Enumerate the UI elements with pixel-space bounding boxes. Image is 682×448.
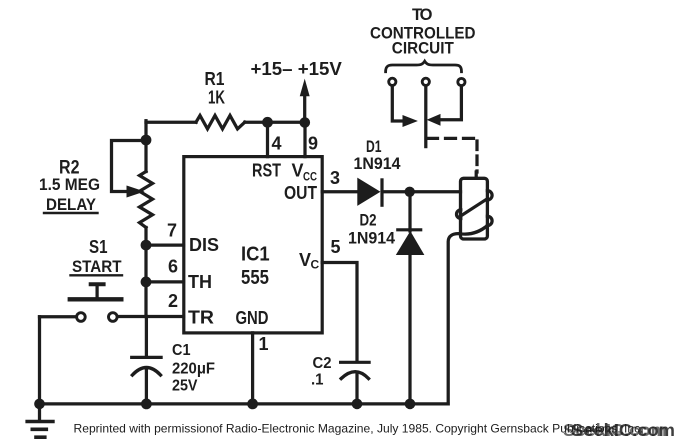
capacitor C2 curved plate xyxy=(341,372,368,379)
wire D1 to relay xyxy=(384,190,461,193)
wire pin 9 Vcc vertical xyxy=(303,123,306,157)
svg-text:TR: TR xyxy=(188,308,214,328)
svg-text:4: 4 xyxy=(272,134,282,154)
node pin9 junction xyxy=(300,117,311,128)
node D2 bottom xyxy=(405,399,416,410)
svg-text:25V: 25V xyxy=(172,378,198,395)
R2 wiper arrowhead xyxy=(127,186,143,197)
capacitor C1 bottom lead xyxy=(145,369,148,404)
diode D1 xyxy=(358,179,380,206)
relay winding right bump lower xyxy=(487,216,492,225)
wire left rail vertical xyxy=(38,317,41,404)
relay contact left wire with arrow xyxy=(392,86,403,121)
wire pin 1 GND vertical xyxy=(251,333,254,404)
pushbutton S1 cap xyxy=(91,282,104,286)
svg-text:CC: CC xyxy=(303,170,317,184)
node DIS junction xyxy=(141,240,152,251)
svg-text:SeekIC.com: SeekIC.com xyxy=(563,420,667,440)
wire D2 bottom lead xyxy=(408,254,411,404)
svg-text:START: START xyxy=(72,258,122,276)
relay winding diagonal xyxy=(460,199,488,217)
wire left to S1 xyxy=(40,315,77,318)
capacitor C1 curved plate xyxy=(132,368,160,376)
svg-text:IC1: IC1 xyxy=(241,244,270,266)
svg-text:S1: S1 xyxy=(89,237,108,257)
svg-text:2: 2 xyxy=(168,291,178,311)
svg-text:D1: D1 xyxy=(366,138,382,156)
node C2 bottom xyxy=(352,399,363,410)
node bottom left xyxy=(34,399,45,410)
dashed mechanical link vertical xyxy=(475,141,478,172)
wire TR from S1 to pin 2 xyxy=(118,315,184,318)
node pin4 junction xyxy=(262,117,273,128)
svg-text:DIS: DIS xyxy=(189,235,219,255)
svg-text:OUT: OUT xyxy=(284,183,317,203)
power supply arrow +15V xyxy=(303,96,306,122)
wire R1 to Vcc node xyxy=(245,121,306,124)
capacitor C1 top lead xyxy=(145,317,148,357)
relay contact right wire with arrow xyxy=(439,87,461,120)
node C1 bottom xyxy=(141,399,152,410)
svg-text:GND: GND xyxy=(236,308,269,328)
svg-text:1N914: 1N914 xyxy=(354,155,402,173)
wire TH stub pin 6 xyxy=(146,280,184,283)
relay contact terminal circles xyxy=(389,78,396,85)
svg-text:DELAY: DELAY xyxy=(46,196,96,214)
svg-text:1N914: 1N914 xyxy=(348,230,396,248)
switch S1 right contact circle xyxy=(109,313,118,322)
diode D2 xyxy=(408,192,411,231)
wire pin 3 OUT to D1 xyxy=(322,190,358,193)
relay contact middle armature wire xyxy=(424,86,427,146)
wire top horizontal from R2 top corner to R1 xyxy=(146,121,196,124)
R2 wiper arm wire xyxy=(112,141,147,192)
svg-text:C2: C2 xyxy=(313,355,332,372)
capacitor C1 top plate xyxy=(132,356,161,359)
dashed mechanical link horizontal xyxy=(428,137,478,140)
svg-text:TH: TH xyxy=(188,272,212,292)
svg-text:7: 7 xyxy=(167,221,177,241)
capacitor C2 bottom lead xyxy=(355,373,358,404)
svg-text:9: 9 xyxy=(308,134,318,154)
svg-text:1K: 1K xyxy=(208,87,225,107)
svg-text:.1: .1 xyxy=(311,372,324,389)
svg-text:TO: TO xyxy=(412,6,433,24)
switch S1 left contact circle xyxy=(77,313,86,322)
potentiometer R2 body xyxy=(140,172,153,228)
IC U1 555 box xyxy=(184,157,322,333)
wire pin 5 Vc to C2 xyxy=(322,263,357,361)
ground symbol xyxy=(38,404,41,421)
svg-text:3: 3 xyxy=(330,168,340,188)
pushbutton S1 stem xyxy=(95,285,98,298)
brace over contacts xyxy=(386,61,462,71)
svg-text:C1: C1 xyxy=(172,342,191,359)
svg-text:CIRCUIT: CIRCUIT xyxy=(392,40,454,58)
node pin1 bottom xyxy=(247,399,258,410)
wire R2 bottom to TR row xyxy=(144,228,147,317)
node R2 wiper junction xyxy=(141,135,152,146)
svg-text:5: 5 xyxy=(331,237,341,257)
svg-text:V: V xyxy=(299,250,311,270)
svg-text:C: C xyxy=(311,258,320,272)
svg-text:R1: R1 xyxy=(205,69,225,89)
relay winding right bump upper xyxy=(487,191,492,200)
svg-text:RST: RST xyxy=(252,161,281,181)
svg-text:Reprinted with permissionof Ra: Reprinted with permissionof Radio-Electr… xyxy=(74,422,644,436)
relay top stub xyxy=(475,172,478,178)
svg-text:555: 555 xyxy=(241,267,269,289)
node D1 D2 junction xyxy=(405,187,415,197)
svg-text:1: 1 xyxy=(259,334,269,354)
resistor R1 xyxy=(196,115,245,128)
relay coil K1 body xyxy=(461,178,488,239)
svg-text:V: V xyxy=(292,161,304,181)
node TH junction xyxy=(141,277,152,288)
svg-text:D2: D2 xyxy=(360,211,377,229)
svg-text:1.5 MEG: 1.5 MEG xyxy=(39,176,100,194)
capacitor C2 top plate xyxy=(341,361,370,364)
svg-text:220μF: 220μF xyxy=(172,360,215,377)
relay winding bottom exit xyxy=(448,226,487,404)
wire bottom ground rail xyxy=(40,402,449,405)
wire R2 top vertical xyxy=(144,121,147,172)
svg-text:+15– +15V: +15– +15V xyxy=(251,59,342,79)
wire DIS stub pin 7 xyxy=(146,243,184,246)
svg-text:6: 6 xyxy=(168,257,178,277)
relay winding left bulge xyxy=(456,210,460,219)
wire pin 4 RST vertical xyxy=(266,122,269,156)
pushbutton S1 crossbar xyxy=(70,297,122,301)
